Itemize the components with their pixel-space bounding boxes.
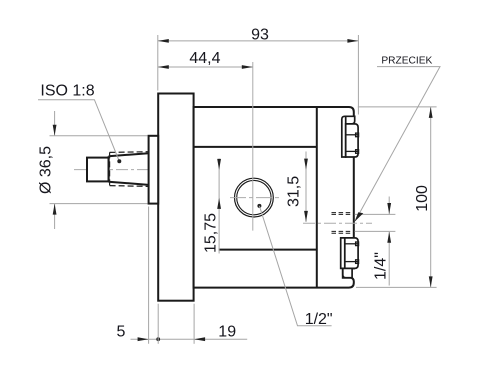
dim 19 text — [218, 324, 236, 341]
gear housing bottom line — [219, 249, 317, 251]
dim datum dot — [156, 337, 160, 341]
leader 1/2" — [259, 206, 331, 326]
dim 15,75 line — [218, 159, 220, 254]
svg-text:15,75: 15,75 — [203, 213, 220, 253]
dim 1/4 lower arrow — [387, 232, 391, 243]
label PRZECIEK — [381, 56, 432, 67]
dim 36,5 bottom arrow — [53, 204, 57, 215]
svg-text:1/4": 1/4" — [373, 252, 390, 280]
port horizontal centerline — [230, 197, 282, 199]
dim 93 line — [158, 40, 359, 42]
svg-text:ISO 1:8: ISO 1:8 — [40, 82, 94, 99]
extension line flange front face — [157, 304, 159, 344]
shaft threaded end cylinder — [87, 158, 109, 182]
dim 100 line — [430, 107, 432, 288]
dim 31,5 upper arrow — [304, 159, 308, 170]
svg-text:Ø 36,5: Ø 36,5 — [37, 146, 54, 194]
leader ISO dot — [117, 159, 121, 163]
dim 1/4 extension upper — [355, 213, 396, 215]
dim 100 top arrow — [429, 107, 433, 118]
shaft axis centerline — [74, 169, 311, 171]
dim 36,5 extension bottom — [50, 203, 148, 205]
leader ISO 1:8 — [38, 100, 119, 161]
extension line flange rear face — [193, 304, 195, 344]
dim 93 text — [251, 27, 269, 44]
dim 36,5 text — [37, 146, 54, 194]
dim 31,5 text — [286, 176, 303, 207]
upper port fitting — [342, 116, 359, 157]
svg-text:31,5: 31,5 — [286, 176, 303, 207]
svg-text:PRZECIEK: PRZECIEK — [381, 56, 432, 67]
dim 31,5 lower arrow — [304, 211, 308, 222]
dim 93 left arrow — [158, 39, 169, 43]
dim 1/4 text — [373, 252, 390, 280]
svg-text:44,4: 44,4 — [189, 50, 220, 67]
svg-text:5: 5 — [117, 324, 126, 341]
svg-text:100: 100 — [414, 185, 431, 212]
suction port circle inner — [237, 180, 271, 214]
port vertical centerline / 44,4 extension — [252, 62, 254, 231]
port marker dot — [257, 204, 261, 208]
suction port circle outer — [235, 178, 274, 217]
dim 100 extension bottom — [356, 286, 437, 288]
dim 1/4 upper arrow — [387, 203, 391, 214]
dim 93 right arrow — [347, 39, 358, 43]
dim 19 arrow — [194, 337, 205, 341]
dim 36,5 top arrow — [53, 125, 57, 136]
leak port hidden thread lines — [332, 213, 353, 234]
shaft thread hidden lines — [110, 152, 149, 187]
mounting flange — [158, 94, 193, 301]
extension line right 93 — [357, 35, 359, 115]
svg-text:1/2": 1/2" — [305, 311, 333, 328]
dim 5 arrow — [138, 337, 149, 341]
dim 100 bottom arrow — [429, 276, 433, 287]
dim 44,4 line — [158, 66, 253, 68]
dim 100 text — [414, 185, 431, 212]
extension line left (93 / 44,4) — [157, 35, 159, 91]
dim 36,5 extension top — [50, 135, 148, 137]
body/cover joint line — [316, 107, 318, 288]
leader PRZECIEK — [355, 67, 440, 221]
label 1/2" — [305, 311, 333, 328]
dim 5 / 19 line — [131, 338, 248, 340]
dim 100 extension top — [358, 106, 437, 108]
dim 44,4 right arrow — [242, 65, 253, 69]
leader PRZECIEK arrow — [355, 212, 364, 222]
dim 15,75 lower arrow — [217, 198, 221, 209]
dim 1/4 line — [388, 197, 390, 286]
dim 1/4 extension lower — [355, 230, 396, 232]
dim 15,75 upper arrow — [217, 159, 221, 170]
svg-text:93: 93 — [251, 27, 269, 44]
dim 31,5 line — [305, 152, 307, 222]
svg-text:19: 19 — [218, 324, 236, 341]
pump body and rear cover outline — [194, 107, 354, 288]
dim 44,4 left arrow — [158, 65, 169, 69]
dim 15,75 text — [203, 213, 220, 253]
dim 44,4 text — [189, 50, 220, 67]
shaft taper ISO 1:8 — [109, 153, 149, 185]
dim diameter 36,5 line — [54, 111, 56, 229]
lower port fitting — [341, 238, 359, 278]
gear housing top line — [194, 146, 317, 148]
leak port axis centerline — [303, 222, 372, 224]
extension line collar face — [148, 207, 150, 344]
label ISO 1:8 — [40, 82, 94, 99]
dim 5 text — [117, 324, 126, 341]
shaft collar — [149, 136, 159, 204]
